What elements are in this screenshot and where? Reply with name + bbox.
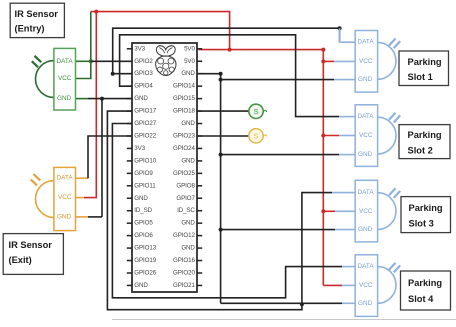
pin left 31 GPIO6	[127, 235, 132, 237]
sensor parking slot 4 dome	[355, 267, 396, 304]
wire slot4 VCC stub	[342, 284, 355, 286]
wire slot1 GND stub	[334, 79, 355, 81]
node GND chain junction A	[219, 72, 223, 76]
wire slot2 DATA stub	[339, 116, 355, 118]
pin right 36 GPIO16	[197, 260, 202, 262]
svg-text:GPIO11: GPIO11	[134, 182, 156, 189]
wire red branch to slot3 VCC	[323, 210, 335, 212]
svg-text:GPIO22: GPIO22	[134, 132, 156, 139]
svg-text:GPIO18: GPIO18	[173, 108, 195, 115]
wire GND chain vertical	[220, 80, 222, 304]
sensor parking slot 2 dome	[355, 117, 396, 154]
wire slot3 DATA stub	[332, 192, 355, 194]
svg-text:GPIO19: GPIO19	[134, 257, 156, 264]
pin right 40 GPIO21	[197, 284, 202, 286]
wire exit GND stub	[76, 216, 89, 218]
pin left 35 GPIO19	[127, 260, 132, 262]
svg-text:Slot 3: Slot 3	[409, 218, 434, 228]
svg-text:GPIO3: GPIO3	[134, 70, 153, 77]
wire entry DATA to GPIO2	[91, 60, 132, 62]
svg-text:Slot 4: Slot 4	[408, 294, 434, 304]
svg-text:GPIO12: GPIO12	[173, 232, 195, 239]
label box IR Sensor Entry	[10, 3, 64, 37]
node red junction slot3 VCC	[321, 209, 325, 213]
wire GPIO4 to slot2 DATA loop	[120, 35, 340, 117]
decor faint page line	[112, 319, 456, 321]
decor slot3 rays	[389, 188, 396, 195]
pin right 30 GND	[197, 222, 202, 224]
pin right 18 GPIO24	[197, 147, 202, 149]
wire GND branch slot2	[221, 154, 340, 156]
pin left 37 GPIO26	[127, 272, 132, 274]
svg-text:GND: GND	[358, 226, 373, 233]
svg-text:GPIO23: GPIO23	[173, 132, 195, 139]
pin left 21 GPIO9	[127, 172, 132, 174]
wire GND branch slot3	[221, 229, 335, 231]
pin left 29 GPIO5	[127, 222, 132, 224]
wire GND branch slot1	[221, 79, 334, 81]
wire red 5V top rail	[91, 12, 230, 50]
label box IR Sensor Exit	[3, 234, 63, 275]
wire GND chain drop1	[220, 74, 222, 80]
wire GPIO3 to slot1 DATA loop	[113, 73, 132, 75]
wire GPIO27 to slot4 DATA loop	[112, 124, 342, 298]
node GND chain junction slot3	[219, 228, 223, 232]
svg-text:Parking: Parking	[408, 57, 442, 67]
svg-text:GND: GND	[181, 220, 195, 227]
svg-text:Parking: Parking	[409, 203, 443, 213]
pin left 33 GPIO13	[127, 247, 132, 249]
pin right 12 GPIO18	[197, 110, 202, 112]
pin right 10 GPIO15	[197, 98, 202, 100]
wire slot4 GND stub	[342, 302, 355, 304]
pin left 5 GPIO3	[127, 73, 132, 75]
sensor parking slot 4 body	[355, 255, 377, 317]
svg-text:GND: GND	[57, 95, 72, 102]
pin right 38 GPIO20	[197, 272, 202, 274]
pin right 22 GPIO25	[197, 172, 202, 174]
svg-text:GND: GND	[358, 76, 373, 83]
pin left 11 GPIO17	[127, 110, 132, 112]
svg-text:VCC: VCC	[359, 58, 373, 65]
svg-text:ID_SD: ID_SD	[134, 207, 152, 214]
pin right 32 GPIO12	[197, 235, 202, 237]
svg-text:GND: GND	[134, 282, 148, 289]
wire GPIO17 bottom loop	[107, 111, 302, 310]
svg-text:GPIO8: GPIO8	[176, 182, 195, 189]
svg-text:GND: GND	[358, 300, 373, 307]
svg-text:GPIO13: GPIO13	[134, 245, 156, 252]
pin left 15 GPIO22	[127, 135, 132, 137]
pin left 17 3V3	[127, 147, 132, 149]
svg-text:GPIO17: GPIO17	[134, 108, 156, 115]
node bottom junction	[300, 302, 304, 306]
node GPIO3 junction	[111, 72, 115, 76]
pin left 3 GPIO2	[127, 60, 132, 62]
pin right 16 GPIO23	[197, 135, 202, 137]
wire GPIO18 to green indicator	[197, 110, 249, 112]
wire Pi GND to chain	[197, 73, 221, 75]
pin right 26 GPIO7	[197, 197, 202, 199]
sensor parking slot 1 dome	[355, 43, 396, 80]
svg-text:GPIO5: GPIO5	[134, 220, 153, 227]
svg-text:3V3: 3V3	[134, 145, 145, 152]
pin right 6 GND	[197, 73, 202, 75]
sensor U2 entry IR dome	[35, 61, 75, 98]
svg-text:DATA: DATA	[358, 39, 375, 46]
wire exit DATA stub	[76, 177, 89, 179]
wire slot4 DATA stub	[342, 266, 355, 268]
svg-text:DATA: DATA	[358, 189, 375, 196]
wire slot1 DATA top loop	[113, 28, 340, 73]
svg-text:3V3: 3V3	[134, 45, 145, 52]
wire slot2 VCC stub	[339, 135, 355, 137]
pin right 20 GND	[197, 160, 202, 162]
svg-text:IR Sensor: IR Sensor	[9, 240, 53, 250]
svg-text:GPIO27: GPIO27	[134, 120, 156, 127]
svg-text:DATA: DATA	[57, 58, 74, 65]
svg-text:(Entry): (Entry)	[15, 24, 45, 34]
sensor parking slot 1 body	[355, 31, 377, 93]
wire exit GND horizontal	[88, 216, 102, 218]
logo raspberry	[156, 46, 176, 76]
wire red branch to slot2 VCC	[323, 135, 339, 137]
svg-text:GPIO10: GPIO10	[134, 157, 156, 164]
svg-text:Slot 2: Slot 2	[408, 146, 433, 156]
decor entry IR rays	[35, 56, 42, 62]
svg-text:GND: GND	[57, 213, 72, 220]
wire entry GND stub	[76, 98, 89, 100]
svg-text:ID_SC: ID_SC	[177, 207, 195, 214]
svg-text:GND: GND	[181, 120, 195, 127]
svg-text:5V0: 5V0	[184, 58, 195, 65]
wire exit DATA to GPIO22	[88, 136, 132, 178]
svg-text:GPIO7: GPIO7	[176, 195, 195, 202]
sensor parking slot 3 dome	[355, 193, 396, 230]
svg-text:GND: GND	[181, 70, 195, 77]
svg-text:IR Sensor: IR Sensor	[15, 9, 59, 19]
svg-text:GPIO14: GPIO14	[173, 83, 195, 90]
pin left 13 GPIO27	[127, 123, 132, 125]
wire exit VCC stub	[76, 197, 85, 199]
sensor U2 entry IR body	[54, 48, 76, 110]
svg-text:GPIO6: GPIO6	[134, 232, 153, 239]
wire red riser to exit-sensor VCC	[84, 12, 96, 198]
svg-text:GPIO15: GPIO15	[173, 95, 195, 102]
op-amp U1 Raspberry Pi GPIO header table	[132, 43, 197, 292]
svg-text:GPIO24: GPIO24	[173, 145, 195, 152]
svg-text:Slot 1: Slot 1	[408, 72, 433, 82]
node GND chain junction slot2	[219, 153, 223, 157]
node red junction slot2 VCC	[321, 134, 325, 138]
svg-text:S: S	[253, 107, 258, 116]
svg-text:(Exit): (Exit)	[9, 255, 32, 265]
svg-text:Parking: Parking	[408, 278, 442, 288]
svg-text:GND: GND	[134, 95, 148, 102]
decor slot1 rays	[389, 39, 396, 46]
node GND bus junction	[100, 97, 104, 101]
svg-text:GPIO21: GPIO21	[173, 282, 195, 289]
node red junction at rail drop	[228, 48, 232, 52]
pin left 9 GND	[127, 98, 132, 100]
svg-text:GPIO20: GPIO20	[173, 269, 195, 276]
wire entry GND to Pi GND	[88, 98, 132, 100]
label box Parking Slot 2	[399, 125, 450, 159]
svg-text:VCC: VCC	[58, 75, 72, 82]
LED S1 green indicator	[249, 104, 263, 118]
pin right 2 5V0	[197, 48, 202, 50]
node junction on red rail	[94, 10, 98, 14]
pin right 4 5V0	[197, 60, 202, 62]
node GND chain junction B	[219, 78, 223, 82]
wire entry DATA stub	[76, 60, 91, 62]
LED S2 yellow indicator	[249, 129, 263, 143]
svg-text:VCC: VCC	[359, 132, 373, 139]
wire red 5V line from Pi pin 5V0	[199, 49, 324, 51]
svg-text:DATA: DATA	[57, 175, 74, 182]
wire slot3 VCC stub	[335, 210, 355, 212]
sensor U3 exit IR body	[54, 167, 76, 230]
wire slot3 GND stub	[335, 229, 355, 231]
pin left 39 GND	[127, 284, 132, 286]
svg-text:DATA: DATA	[358, 263, 375, 270]
svg-text:GPIO16: GPIO16	[173, 257, 195, 264]
svg-text:DATA: DATA	[358, 113, 375, 120]
wire entry VCC riser to red rail	[76, 12, 91, 79]
svg-text:GPIO4: GPIO4	[134, 83, 153, 90]
sensor parking slot 3 body	[355, 180, 377, 242]
node red junction at VCC bus top	[321, 48, 325, 52]
wire red VCC bus vertical	[322, 50, 324, 286]
svg-text:Parking: Parking	[408, 130, 442, 140]
pin left 7 GPIO4	[127, 85, 132, 87]
node red junction slot1 VCC	[321, 59, 325, 63]
svg-text:GND: GND	[358, 151, 373, 158]
svg-text:GPIO2: GPIO2	[134, 58, 153, 65]
wire slot2 GND stub	[339, 154, 355, 156]
pin right 24 GPIO8	[197, 185, 202, 187]
pin right 34 GND	[197, 247, 202, 249]
pin left 25 GND	[127, 197, 132, 199]
label box Parking Slot 4	[401, 271, 451, 310]
pin left 1 3V3	[127, 48, 132, 50]
svg-text:GPIO26: GPIO26	[134, 269, 156, 276]
decor exit IR rays	[34, 174, 41, 180]
svg-text:GPIO9: GPIO9	[134, 170, 153, 177]
node entry DATA junction	[89, 59, 93, 63]
svg-text:GND: GND	[181, 245, 195, 252]
pin right 8 GPIO14	[197, 85, 202, 87]
wire GPIO23 to yellow indicator	[197, 135, 249, 137]
pin right 28 ID_SC	[197, 210, 202, 212]
svg-text:GPIO25: GPIO25	[173, 170, 195, 177]
wire slot1 VCC stub	[334, 60, 355, 62]
label box Parking Slot 3	[401, 197, 451, 233]
wire GND branch slot4	[221, 302, 342, 304]
wire slot1 DATA riser blue	[339, 28, 341, 42]
svg-text:VCC: VCC	[58, 194, 72, 201]
sensor parking slot 2 body	[355, 105, 377, 167]
pin left 27 ID_SD	[127, 210, 132, 212]
wire slot3 DATA riser	[302, 193, 332, 305]
svg-text:S: S	[253, 132, 258, 141]
pin left 19 GPIO10	[127, 160, 132, 162]
node slot1 DATA corner junction	[338, 26, 342, 30]
svg-text:VCC: VCC	[359, 282, 373, 289]
svg-text:VCC: VCC	[359, 208, 373, 215]
svg-text:GND: GND	[181, 157, 195, 164]
sensor U3 exit IR dome	[36, 181, 76, 218]
wire GND bus vertical entry-exit	[101, 99, 103, 217]
wire red branch to slot1 VCC	[323, 60, 334, 62]
wire red branch to slot4 VCC	[323, 284, 342, 286]
decor slot4 rays	[389, 263, 396, 270]
svg-text:5V0: 5V0	[184, 45, 195, 52]
svg-text:GND: GND	[134, 195, 148, 202]
label box Parking Slot 1	[399, 51, 449, 86]
decor slot2 rays	[389, 113, 396, 120]
pin left 23 GPIO11	[127, 185, 132, 187]
pin right 14 GND	[197, 123, 202, 125]
wire slot1 DATA stub	[340, 41, 355, 43]
